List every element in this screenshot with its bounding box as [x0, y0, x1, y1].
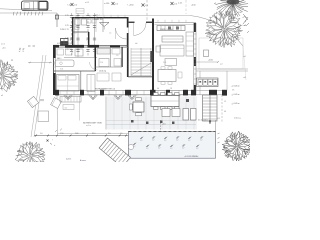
svg-text:△ 0.45 w: △ 0.45 w — [232, 93, 241, 96]
svg-text:1.2: 1.2 — [182, 148, 184, 150]
svg-text:5.20: 5.20 — [163, 62, 166, 64]
svg-text:e1 2.0: e1 2.0 — [1, 70, 6, 72]
svg-text:1.2: 1.2 — [200, 140, 202, 142]
svg-text:× +4.50: × +4.50 — [127, 4, 133, 7]
svg-text:4.05 SCHLAFZI 3.80: 4.05 SCHLAFZI 3.80 — [57, 42, 73, 45]
svg-text:s 4.1: s 4.1 — [85, 2, 89, 4]
svg-text:e1: e1 — [1, 95, 3, 97]
svg-text:e1: e1 — [243, 17, 245, 19]
svg-text:10.35 mp: 10.35 mp — [99, 71, 106, 73]
svg-text:0.9: 0.9 — [224, 111, 226, 113]
svg-text:2.4: 2.4 — [108, 133, 110, 135]
svg-text:1.2: 1.2 — [158, 148, 160, 150]
svg-text:0.3: 0.3 — [218, 118, 220, 120]
svg-text:1.2: 1.2 — [224, 101, 226, 103]
svg-text:4.50: 4.50 — [74, 4, 77, 6]
svg-text:1.2: 1.2 — [188, 140, 190, 142]
svg-text:w2: w2 — [244, 25, 246, 27]
svg-text:e4: e4 — [244, 56, 246, 58]
svg-text:△ 0.45 w: △ 0.45 w — [232, 102, 241, 105]
svg-text:3.10: 3.10 — [92, 133, 95, 135]
svg-text:4.50: 4.50 — [174, 3, 177, 5]
svg-text:0.5 st 1.20 w: 0.5 st 1.20 w — [198, 119, 208, 122]
svg-text:+0.5: +0.5 — [162, 124, 166, 126]
svg-text:1.2: 1.2 — [164, 140, 166, 142]
svg-text:× 4.2: × 4.2 — [67, 4, 71, 7]
svg-text:e 4.1: e 4.1 — [178, 3, 182, 5]
svg-text:1.8: 1.8 — [116, 55, 118, 57]
svg-text:st 2 w △: st 2 w △ — [234, 117, 241, 120]
svg-text:+4.20 FIN FINISAJ: +4.20 FIN FINISAJ — [184, 155, 198, 158]
svg-text:1.4: 1.4 — [109, 33, 111, 35]
svg-text:s 4.50: s 4.50 — [104, 3, 109, 5]
svg-text:2.55: 2.55 — [100, 62, 103, 64]
svg-text:pp: pp — [11, 60, 13, 62]
svg-text:1.50: 1.50 — [60, 133, 63, 135]
svg-text:2.0: 2.0 — [74, 33, 76, 35]
svg-text:+1.50: +1.50 — [237, 12, 242, 14]
svg-text:e2: e2 — [214, 3, 216, 5]
svg-text:4.50: 4.50 — [115, 3, 118, 5]
svg-text:2.5 1.2: 2.5 1.2 — [95, 15, 100, 17]
svg-text:PUBLIC TE: PUBLIC TE — [60, 29, 70, 31]
svg-text:+4.50: +4.50 — [191, 5, 196, 7]
svg-text:1.2: 1.2 — [140, 140, 142, 142]
svg-text:ca. 4 m: ca. 4 m — [86, 125, 92, 127]
svg-text:PLAN JUC: PLAN JUC — [94, 18, 104, 21]
svg-text:1.2: 1.2 — [152, 140, 154, 142]
svg-text:4.6: 4.6 — [157, 88, 159, 90]
svg-text:+0.00: +0.00 — [208, 60, 213, 62]
svg-text:e 2.1: e 2.1 — [1, 44, 5, 46]
svg-text:1.25: 1.25 — [65, 15, 69, 17]
svg-text:1.2: 1.2 — [146, 148, 148, 150]
svg-text:1.2: 1.2 — [170, 148, 172, 150]
svg-text:△ 0.45 w: △ 0.45 w — [232, 85, 241, 88]
svg-text:WOHNZIMMER TER 4.6: WOHNZIMMER TER 4.6 — [95, 89, 115, 91]
svg-text:1.25: 1.25 — [65, 25, 69, 27]
svg-text:1.0: 1.0 — [40, 133, 42, 135]
svg-text:2.80: 2.80 — [75, 133, 78, 135]
svg-text:2.8: 2.8 — [170, 88, 172, 90]
svg-text:1.2: 1.2 — [176, 140, 178, 142]
svg-text:1.9: 1.9 — [120, 133, 122, 135]
svg-text:w2: w2 — [244, 77, 246, 79]
svg-text:3.05: 3.05 — [60, 69, 63, 71]
svg-text:a.d: a.d — [220, 64, 222, 66]
svg-text:4.20 m: 4.20 m — [66, 159, 72, 161]
svg-text:+0.5: +0.5 — [2, 48, 6, 50]
svg-text:4.50: 4.50 — [145, 5, 148, 7]
svg-text:1.2: 1.2 — [196, 148, 198, 150]
